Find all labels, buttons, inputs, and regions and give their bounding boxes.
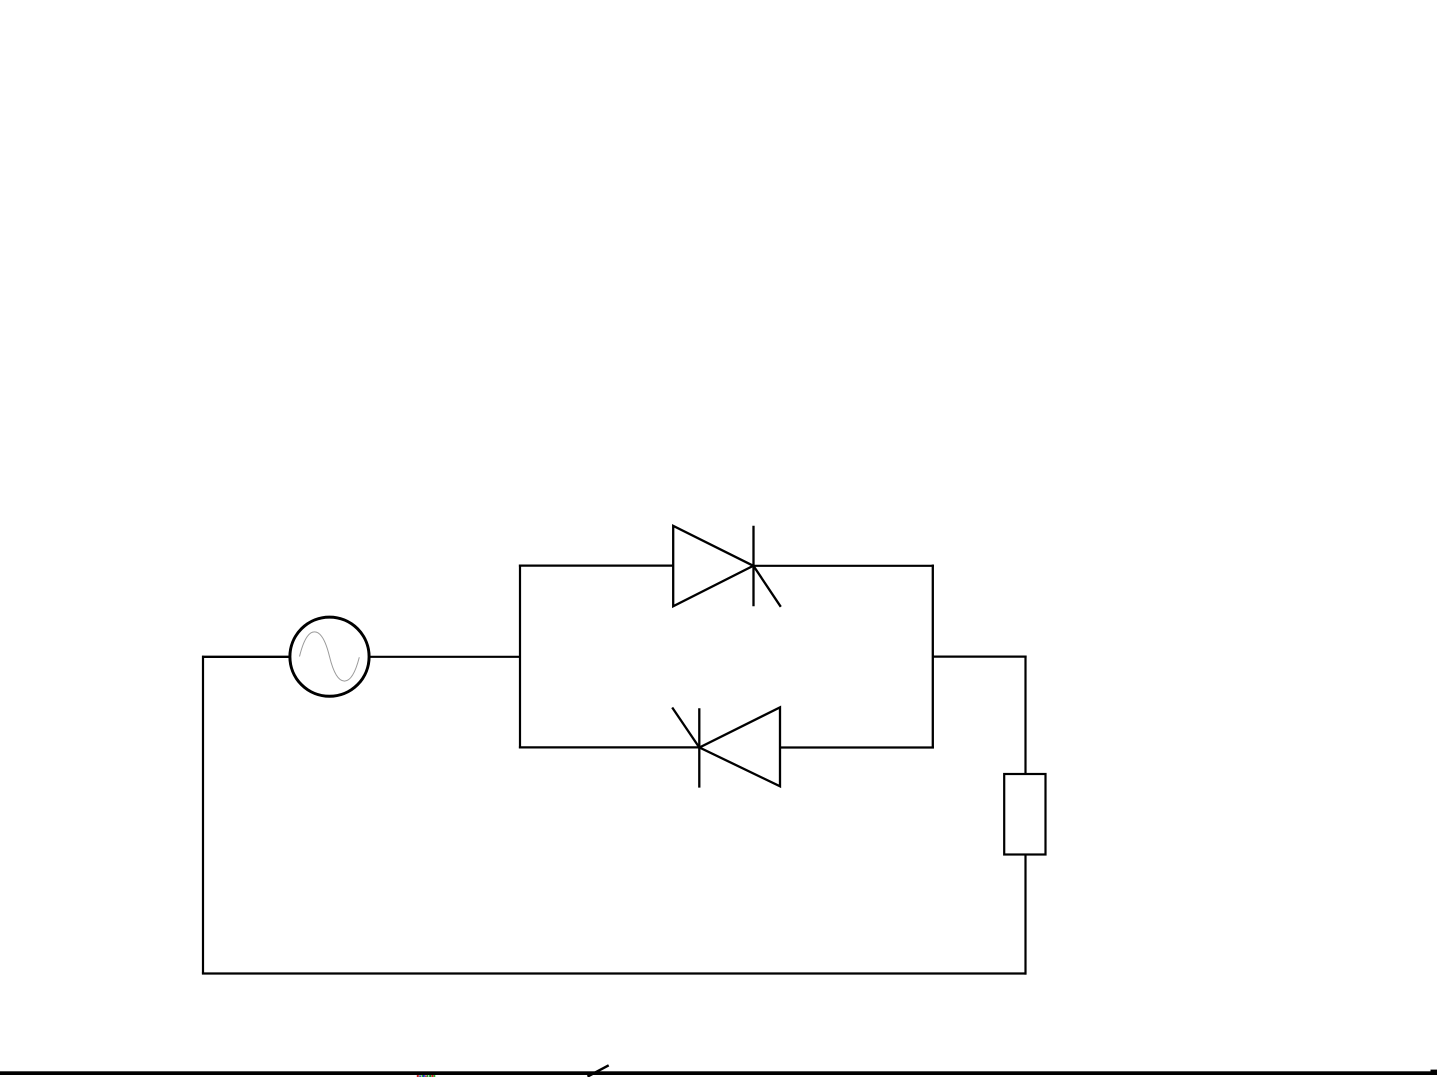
wire bridge bottom-right segment [780, 746, 934, 748]
resistor R1 [1004, 774, 1045, 855]
wire from resistor bottom to bottom loop wire [1024, 855, 1026, 975]
wire from bridge right edge to resistor branch corner [933, 655, 1027, 657]
bottom screen-edge horizontal line [0, 1071, 1437, 1075]
wire bridge top-left segment [519, 564, 674, 566]
small tick at bottom-right corner of line [1431, 1070, 1437, 1075]
wire bridge left edge (vertical) [519, 565, 521, 749]
wire left vertical side of outer loop [202, 656, 204, 974]
ac source V1 [290, 617, 369, 696]
wire bridge right edge (vertical) [932, 565, 934, 749]
diagonal stroke rising from bottom line [588, 1065, 609, 1076]
wire vertical from corner down to resistor top [1024, 656, 1026, 775]
wire bridge bottom-left segment [519, 746, 700, 748]
thyristor SCR1 (top, pointing right) [673, 526, 781, 607]
wire from AC source right terminal to bridge left edge [369, 656, 522, 658]
wire bridge top-right segment [754, 565, 934, 567]
wire bottom side of outer loop [202, 972, 1026, 974]
thyristor SCR2 (bottom, pointing left) [672, 707, 780, 787]
subpixel colored text remnant on bottom line [417, 1075, 436, 1077]
wire from left loop corner to AC source left terminal [202, 656, 291, 658]
